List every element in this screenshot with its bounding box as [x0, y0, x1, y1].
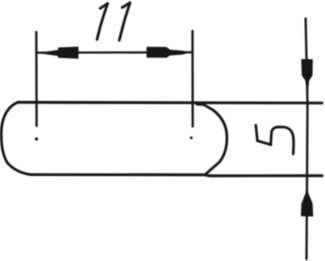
right rounded end arc: [196, 103, 227, 175]
dimension line 11: [37, 51, 192, 54]
arrowhead left (dimension 11): [38, 47, 79, 59]
dimension text 11: [97, 3, 130, 41]
arrowhead top (dimension 5, pointing down): [301, 59, 313, 97]
dimension line 5 (vertical): [306, 19, 308, 260]
slot bottom edge: [31, 175, 322, 176]
slot top edge: [18, 101, 323, 104]
arrowhead bottom (dimension 5, pointing up): [301, 181, 313, 217]
left center mark: [35, 137, 38, 140]
right extension line: [191, 31, 193, 127]
left rounded end arc: [1, 103, 31, 175]
right center mark: [190, 136, 193, 139]
arrowhead right (dimension 11): [147, 47, 190, 58]
left extension line: [35, 32, 38, 126]
dimension text 5 (rotated): [256, 125, 294, 154]
